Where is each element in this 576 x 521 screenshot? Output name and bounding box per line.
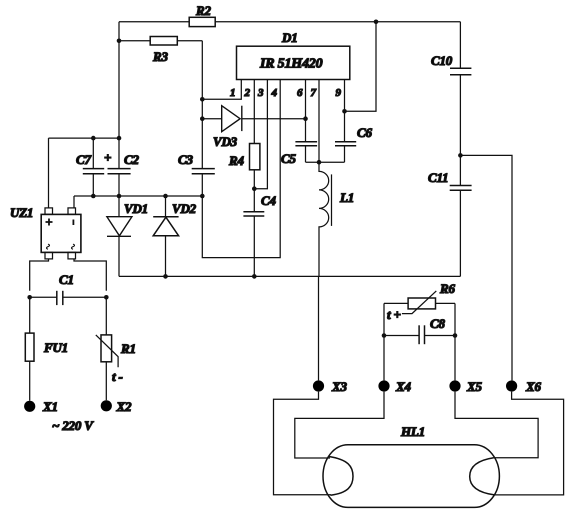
svg-text:X4: X4 (395, 379, 411, 394)
capacitor C5 (295, 142, 317, 146)
capacitor C6 (335, 142, 356, 146)
wire C1 row (30, 296, 107, 298)
node junction top rail x376 (374, 20, 379, 25)
svg-text:C7: C7 (76, 152, 91, 167)
op-amp U1 IC D1 box (237, 46, 350, 79)
node junction x119 R3 (117, 39, 122, 44)
wire X1 branch (29, 297, 31, 400)
svg-text:X5: X5 (466, 379, 482, 394)
svg-text:VD3: VD3 (213, 134, 238, 149)
UZ1 ac mark left (47, 244, 50, 249)
svg-text:C1: C1 (59, 272, 74, 287)
wire C7 top bar (49, 137, 120, 139)
node junction pin9 (342, 109, 347, 114)
svg-text:VD1: VD1 (124, 201, 148, 216)
svg-text:FU1: FU1 (43, 340, 68, 355)
terminal X4 (378, 380, 389, 391)
svg-text:L1: L1 (339, 190, 354, 205)
capacitor C1 (57, 291, 63, 305)
fuse FU1 (25, 333, 34, 361)
svg-text:UZ1: UZ1 (10, 205, 33, 220)
wire pin 6 (305, 80, 307, 142)
svg-text:C11: C11 (428, 170, 448, 185)
capacitor C2 (108, 169, 131, 174)
wire node row y196 (74, 195, 202, 197)
wire UZ1 ac right down (74, 259, 106, 291)
node junction VD3 right pin6 (303, 116, 308, 121)
UZ1 tab bottom right (68, 252, 76, 259)
wire X6 to lamp (494, 392, 563, 495)
svg-text:C3: C3 (178, 152, 193, 167)
node junction R4 pin3 (252, 186, 257, 191)
svg-text:R6: R6 (439, 281, 455, 296)
svg-text:7: 7 (311, 87, 317, 99)
svg-text:6: 6 (297, 87, 303, 99)
lamp HL1 left electrode (329, 457, 353, 496)
node junction C2 top (117, 136, 122, 141)
wire C6 bottom (344, 146, 346, 163)
capacitor C8 (419, 325, 424, 344)
node junction C8 right (453, 333, 458, 338)
wire pin 9 (344, 80, 346, 142)
wire C5 bottom (305, 146, 307, 163)
svg-text:R1: R1 (120, 341, 136, 356)
svg-text:IR 51H420: IR 51H420 (259, 57, 323, 72)
svg-text:C10: C10 (431, 53, 453, 68)
wire X2 branch (105, 297, 107, 400)
node junction y196 C7 (91, 194, 96, 199)
wire C8 row (384, 335, 455, 337)
wire X5 to lamp (455, 392, 538, 458)
wire bottom rail (119, 275, 460, 277)
wire C5 C6 bottom bar (306, 161, 345, 163)
lamp HL1 right electrode (470, 458, 495, 495)
node junction L1 top (317, 160, 322, 165)
wire pin 1 (202, 80, 241, 100)
svg-text:9: 9 (336, 87, 342, 99)
node junction C1 right (104, 295, 109, 300)
wire pin 4 (279, 79, 281, 82)
node junction VD3 left (200, 116, 205, 121)
wire R6C8 right vertical (454, 303, 456, 380)
wire X4 to lamp (295, 392, 384, 458)
UZ1 tab bottom left (45, 252, 53, 259)
node junction C8 left (382, 333, 387, 338)
terminal X2 (101, 400, 112, 411)
node junction pin1 x202 (200, 97, 205, 102)
svg-text:R3: R3 (152, 49, 168, 64)
lamp HL1 envelope (323, 445, 499, 508)
wire pin 2 (253, 80, 255, 144)
wire junction to X6 (460, 155, 512, 380)
svg-text:D1: D1 (281, 30, 298, 45)
UZ1 minus mark (72, 220, 74, 226)
node junction C10 C11 (458, 153, 463, 158)
wire VD3 row (202, 118, 305, 120)
capacitor C10 (450, 68, 471, 74)
wire top rail (119, 21, 460, 23)
svg-text:X6: X6 (525, 379, 541, 394)
node junction rail VD2 (163, 274, 168, 279)
svg-text:VD2: VD2 (172, 201, 197, 216)
svg-text:1: 1 (230, 87, 235, 99)
svg-text:C6: C6 (357, 125, 372, 140)
capacitor C7 (83, 169, 104, 174)
svg-text:HL1: HL1 (400, 424, 425, 439)
wire C7 leads (92, 138, 94, 196)
node junction rail C4 (252, 274, 257, 279)
resistor R4 (250, 144, 260, 170)
svg-text:R4: R4 (228, 153, 244, 168)
UZ1 ac mark right (72, 244, 75, 249)
svg-text:t -: t - (112, 369, 123, 384)
resistor R1 (96, 335, 118, 367)
terminal X1 (24, 401, 35, 412)
inductor L1 (319, 162, 332, 276)
wire UZ1 ac left down (30, 259, 49, 291)
wire L1 to X3 (318, 276, 320, 380)
svg-text:4: 4 (271, 87, 278, 99)
terminal X6 (506, 380, 517, 391)
wire pin 3 (254, 80, 267, 189)
svg-text:+: + (104, 150, 111, 165)
node junction y196 VD2 (163, 194, 168, 199)
capacitor C11 (450, 186, 472, 191)
UZ1 tab top right (68, 208, 76, 215)
node junction C7 top (91, 136, 96, 141)
diode VD3 (222, 106, 242, 132)
UZ1 plus mark (46, 219, 53, 226)
svg-text:t +: t + (387, 307, 401, 322)
resistor R2 (189, 17, 215, 26)
svg-text:X3: X3 (331, 379, 347, 394)
svg-text:3: 3 (257, 87, 264, 99)
capacitor C4 (243, 212, 264, 216)
svg-text:C4: C4 (261, 193, 276, 208)
wire vertical x202 (202, 41, 280, 258)
wire right chain C10 C11 (459, 22, 461, 277)
wire R3 branch (119, 40, 202, 42)
node junction y196 C3 (200, 194, 205, 199)
UZ1 tab top left (45, 208, 53, 215)
terminal X5 (449, 380, 460, 391)
capacitor C3 (192, 169, 215, 174)
diode VD1 (107, 217, 132, 237)
wire VD1 bottom (118, 236, 120, 276)
wire R4 to C4 (253, 170, 255, 277)
wire VD2 leads (165, 196, 167, 276)
node junction y196 VD1 (117, 194, 122, 199)
svg-text:2: 2 (244, 87, 251, 99)
node junction C1 left (27, 295, 32, 300)
wire UZ1 plus up (48, 138, 50, 208)
svg-text:C8: C8 (430, 316, 445, 331)
svg-text:C5: C5 (281, 151, 296, 166)
diode VD2 (153, 217, 178, 236)
resistor R6 (402, 291, 436, 314)
svg-text:R2: R2 (195, 3, 211, 18)
wire pin9 to top rail (345, 22, 377, 112)
wire left vertical bus (118, 22, 120, 217)
wire R6 row (384, 302, 455, 304)
svg-text:~ 220 V: ~ 220 V (52, 418, 94, 433)
resistor R3 (150, 37, 177, 46)
svg-text:X1: X1 (42, 399, 58, 414)
wire R6C8 left vertical (383, 303, 385, 380)
wire UZ1 minus up (73, 196, 75, 208)
rectifier UZ1 box (41, 214, 81, 252)
wire X3 to lamp (274, 392, 332, 495)
svg-text:X2: X2 (116, 399, 132, 414)
svg-text:C2: C2 (124, 152, 139, 167)
terminal X3 (313, 380, 324, 391)
wire pin 7 (318, 80, 320, 163)
